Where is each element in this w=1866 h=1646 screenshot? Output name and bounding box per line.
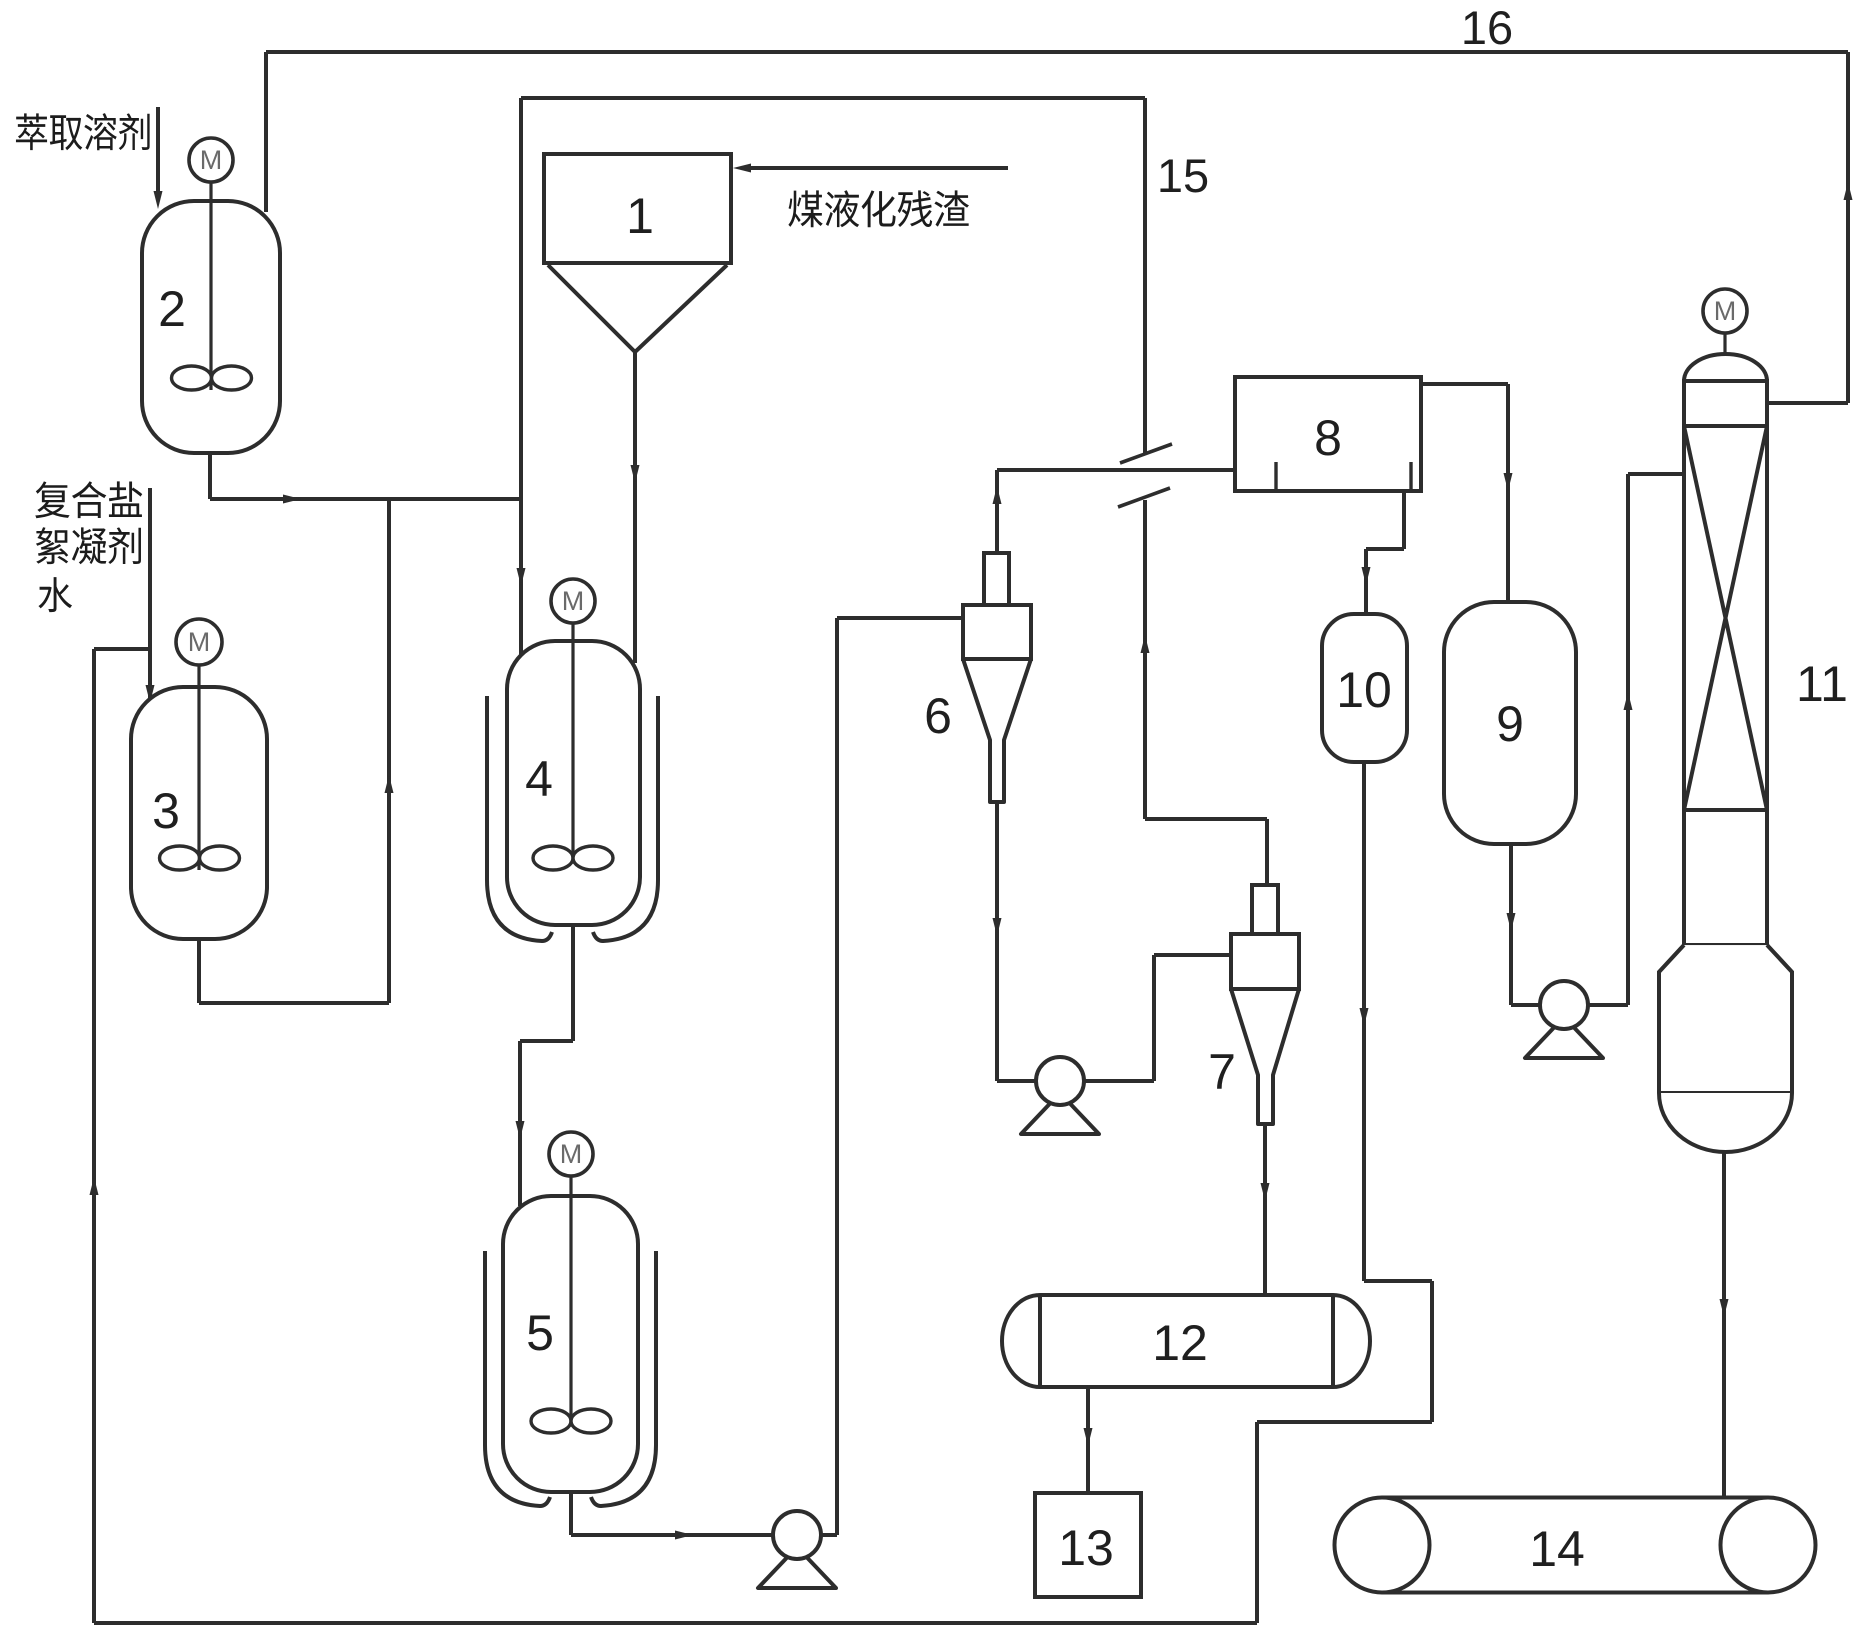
motor M of vessel 3 [197,664,200,870]
svg-text:10: 10 [1336,662,1392,718]
wire: vessel 3 outlet loop up to junction [197,939,201,1003]
weirs inside box 8 [1274,462,1277,491]
box 8 (separator) [1235,377,1421,491]
svg-text:4: 4 [525,751,553,807]
wire: box 8 bottom outlet to vessel 10 [1402,491,1406,549]
box 13 [1035,1493,1141,1597]
wire: pump to column 11 feed [1588,1003,1628,1007]
svg-text:5: 5 [526,1305,554,1361]
svg-text:15: 15 [1157,149,1209,202]
conveyor 14 [1382,1496,1768,1500]
left head of vessel 12 [1002,1295,1040,1387]
break symbol (line crossing) [1120,444,1172,463]
vessel 1 (mixing hopper) [544,154,731,263]
impeller of tank 2 [172,366,212,390]
wire: cyclone 6 underflow to pump [995,802,999,1081]
column 11 shell [1684,381,1767,945]
wire: vessel 12 bottoms to box 13 [1086,1387,1090,1493]
impeller of vessel 5 [531,1409,571,1433]
label 萃取溶剂 [16,113,47,150]
wire: cyclone 7 underflow to vessel 12 [1263,1124,1267,1295]
svg-text:1: 1 [626,188,654,244]
cyclone 7 [1252,885,1278,934]
motor M of vessel 5 [569,1176,572,1423]
svg-text:M: M [188,627,211,657]
svg-text:9: 9 [1496,696,1524,752]
wire: cyclone 6 overhead to box 8 [995,470,999,553]
pump under cyclone 6 [1021,1093,1099,1134]
svg-text:14: 14 [1529,1521,1585,1577]
wire: vessel 5 outlet to pump [569,1492,573,1535]
column 11 top dome [1684,354,1767,381]
impeller of vessel 3 [160,846,200,870]
svg-text:6: 6 [924,688,952,744]
svg-text:2: 2 [158,281,186,337]
svg-text:M: M [560,1139,583,1169]
svg-text:11: 11 [1796,656,1848,712]
wire: pump to cyclone 6 [821,1533,837,1537]
motor M of vessel 4 [571,623,574,860]
pump after vessel 9 [1525,1017,1603,1058]
motor M of column 11 [1723,333,1726,356]
wire: 萃取溶剂 feed into tank 2 [156,107,160,200]
right head of vessel 12 [1333,1295,1370,1387]
svg-text:M: M [562,586,585,616]
wire: column 11 bottoms to conveyor 14 [1722,1152,1726,1497]
wire: tank 2 outlet to vessel 4 [208,453,212,499]
impeller of vessel 4 [533,846,573,870]
svg-text:3: 3 [152,783,180,839]
labels 复合盐 絮凝剂 水 [35,481,69,518]
wire: vessel 9 to pump [1509,844,1513,1005]
pump after vessel 5 [758,1547,836,1588]
wire: feed 煤液化残渣 into vessel 1 [744,166,1008,170]
wire: pump to cyclone 7 [1084,1079,1154,1083]
jacket of vessel 4 [487,696,552,941]
column 11 bottom section [1659,945,1792,1093]
wire: 复合盐/絮凝剂/水 feed into vessel 3 [148,488,152,698]
packing X of column 11 [1684,426,1767,810]
svg-text:8: 8 [1314,410,1342,466]
cyclone 6 [984,553,1009,605]
vessel 9 [1444,602,1576,844]
wire: recycle water loop (vessel 10 to vessel 3 feed) [1362,762,1366,1281]
vessel 10 [1322,614,1407,762]
svg-text:12: 12 [1152,1315,1208,1371]
wire: line 16 recycle top [266,50,1848,54]
right roller of conveyor 14 [1721,1498,1816,1593]
jacket of vessel 5 [485,1251,550,1506]
wire: line 15 recycle (cyclone 7 overhead to vessel 4) [521,96,1145,100]
wire: vessel 1 outlet to vessel 4 [633,352,637,663]
svg-text:M: M [1714,296,1737,326]
wire: box 8 right outlet to vessel 9 [1421,382,1508,386]
label 煤液化残渣 [788,190,822,227]
wire: vessel 4 outlet to vessel 5 [571,925,575,1041]
svg-text:M: M [200,145,223,175]
svg-text:7: 7 [1208,1044,1236,1100]
motor M of tank 2 [209,182,212,390]
left roller of conveyor 14 [1335,1498,1430,1593]
svg-text:13: 13 [1058,1520,1114,1576]
vessel 12 (horizontal drum) [1040,1295,1333,1387]
svg-text:16: 16 [1461,1,1513,54]
